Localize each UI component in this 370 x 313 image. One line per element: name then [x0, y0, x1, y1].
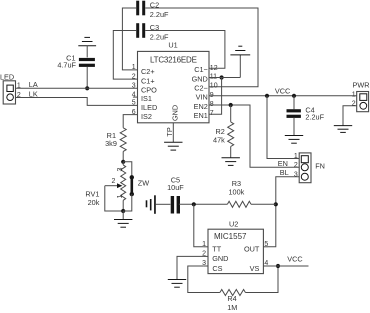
wire U1 TP pad to ground [172, 123, 174, 142]
svg-text:10uF: 10uF [167, 183, 184, 192]
node R1/RV1/ZW [121, 160, 125, 164]
svg-text:IS1: IS1 [141, 94, 152, 103]
connector LED [0, 72, 21, 104]
node pot bottom [121, 209, 125, 213]
wire C3 right to U1 pin 12 [145, 31, 225, 69]
connector FN [294, 153, 325, 183]
capacitor C4 [287, 96, 325, 136]
wire PWR pin 2 to ground [343, 106, 357, 126]
svg-text:FN: FN [315, 162, 325, 171]
node VCC/FN [265, 94, 269, 98]
svg-text:2: 2 [132, 73, 136, 80]
jumper ZW [123, 162, 149, 211]
wire node to U2 pin 1 (TT) [194, 204, 204, 247]
svg-text:2.2uF: 2.2uF [150, 10, 169, 19]
svg-text:GND: GND [192, 74, 208, 83]
capacitor C5 [167, 175, 184, 213]
wire R4 to VS node [245, 266, 278, 293]
svg-text:12: 12 [210, 65, 218, 72]
ground below U1 [164, 142, 182, 150]
wiper of RV1 (pin 2) [105, 178, 123, 211]
svg-text:LED: LED [0, 72, 14, 81]
wire U1 pin 6 to R1 [123, 115, 137, 128]
pin 4 [263, 265, 268, 267]
svg-text:C2+: C2+ [141, 67, 155, 76]
svg-text:2.2uF: 2.2uF [305, 113, 324, 122]
resistor R1 3k9 [105, 128, 126, 152]
wire R1 to node [122, 151, 124, 161]
svg-text:1: 1 [352, 92, 356, 99]
pin 2 [203, 255, 208, 257]
svg-text:ILED: ILED [141, 103, 157, 112]
svg-text:VIN: VIN [196, 93, 208, 102]
svg-text:2: 2 [111, 178, 115, 185]
ground below R2 [222, 158, 240, 166]
svg-text:TP: TP [165, 127, 174, 136]
svg-text:2.2uF: 2.2uF [150, 32, 169, 41]
svg-text:OUT: OUT [244, 244, 260, 253]
svg-text:C1+: C1+ [141, 76, 155, 85]
ground below C4 [285, 136, 303, 144]
svg-text:MIC1557: MIC1557 [214, 232, 247, 241]
resistor R2 47k [213, 105, 234, 158]
wire LK to U1 pin 5 (ILED) [16, 98, 138, 106]
svg-text:4.7uF: 4.7uF [57, 61, 76, 70]
wire U1 pin 11 to ground [209, 77, 240, 79]
svg-text:C1−: C1− [194, 65, 208, 74]
ground above C1 [78, 37, 96, 57]
wire U2 pin 3 (CS) to R4 [188, 266, 220, 293]
capacitor C3 [136, 23, 169, 42]
ground below U2 GND [168, 280, 186, 288]
wire U2 pin 4 (VS) to VCC stub [268, 265, 309, 267]
wire C3 left to U1 pin 2 [113, 31, 137, 80]
svg-text:3: 3 [294, 171, 298, 178]
node VS/VCC [276, 264, 280, 268]
svg-text:1: 1 [202, 241, 206, 248]
svg-text:10: 10 [210, 83, 218, 90]
wire FN pin 3 (BL) to R3/OUT node [268, 177, 299, 247]
svg-text:VCC: VCC [287, 255, 302, 264]
op-amp U2 MIC1557 [202, 219, 268, 273]
svg-text:CS: CS [212, 264, 222, 273]
wire LA to U1 pin 3 (CPO) [16, 87, 138, 89]
svg-text:5: 5 [132, 100, 136, 107]
wire C2 right to U1 pin 10 [145, 8, 258, 87]
svg-text:GND: GND [212, 254, 228, 263]
resistor R4 1M [220, 290, 246, 313]
pin 4 [133, 96, 138, 98]
capacitor C1 [57, 54, 95, 70]
svg-text:2: 2 [294, 162, 298, 169]
wire C1 bottom to LA net [86, 67, 88, 88]
input arrow glyph at C5 [146, 195, 171, 214]
svg-text:EN2: EN2 [194, 102, 208, 111]
svg-text:EN: EN [278, 159, 288, 168]
svg-text:VCC: VCC [275, 87, 290, 96]
wire U1 pin 8 to FN pin 2 (EN) [209, 105, 299, 167]
svg-text:3: 3 [132, 83, 136, 90]
svg-text:47k: 47k [213, 136, 225, 145]
svg-text:2: 2 [352, 100, 356, 107]
node EN2/R2 [229, 103, 233, 107]
svg-text:20k: 20k [88, 198, 100, 207]
svg-text:100k: 100k [228, 188, 244, 197]
svg-text:EN1: EN1 [194, 111, 208, 120]
wire VCC rail: U1 pin 9 to PWR pin 1 [209, 95, 357, 97]
svg-text:1: 1 [294, 153, 298, 160]
op-amp U1 LTC3216EDE [132, 41, 218, 137]
svg-text:3k9: 3k9 [105, 139, 117, 148]
svg-text:VS: VS [250, 264, 260, 273]
svg-text:1: 1 [117, 194, 124, 198]
ground below RV1 [114, 220, 132, 228]
pin 1 [203, 246, 208, 248]
svg-text:C2−: C2− [194, 84, 208, 93]
resistor R3 100k [227, 179, 251, 207]
capacitor C2 [136, 0, 169, 19]
svg-text:1: 1 [132, 64, 136, 71]
svg-text:U1: U1 [168, 41, 177, 50]
wire C5 to R3 [179, 203, 228, 205]
svg-text:BL: BL [280, 168, 289, 177]
svg-text:TT: TT [212, 244, 221, 253]
pin 5 [263, 246, 268, 248]
svg-text:3: 3 [117, 168, 124, 172]
node BL/R3 [274, 202, 278, 206]
node GND/EN1 on pin 11 [220, 75, 224, 79]
node VCC/C4 [292, 94, 296, 98]
svg-text:LTC3216EDE: LTC3216EDE [150, 55, 197, 64]
svg-text:4: 4 [264, 260, 268, 267]
svg-text:ZW: ZW [138, 179, 149, 188]
node junction C1/LA [85, 86, 89, 90]
svg-text:R4: R4 [227, 294, 236, 303]
pin 3 [203, 265, 208, 267]
node C5/R3/TT [192, 202, 196, 206]
ground below PWR [334, 126, 352, 133]
svg-text:4: 4 [132, 91, 136, 98]
svg-text:1M: 1M [227, 303, 237, 312]
wire R3 right to node [251, 203, 276, 205]
wire pot bottom to ground [122, 211, 124, 220]
svg-text:GND: GND [170, 105, 179, 121]
svg-text:U2: U2 [229, 219, 238, 228]
connector PWR [352, 81, 370, 112]
wire VCC to FN pin 1 [267, 96, 299, 159]
svg-text:PWR: PWR [353, 81, 370, 90]
svg-text:IS2: IS2 [141, 112, 152, 121]
wire U1 pin 7 to pin 11 node [209, 78, 222, 115]
svg-text:5: 5 [264, 241, 268, 248]
ground above pin 11 net [230, 46, 250, 77]
wire C2 left to U1 pin 1 [122, 8, 137, 70]
wire U2 pin 2 to ground [177, 256, 203, 279]
potentiometer RV1 20k [85, 162, 125, 211]
